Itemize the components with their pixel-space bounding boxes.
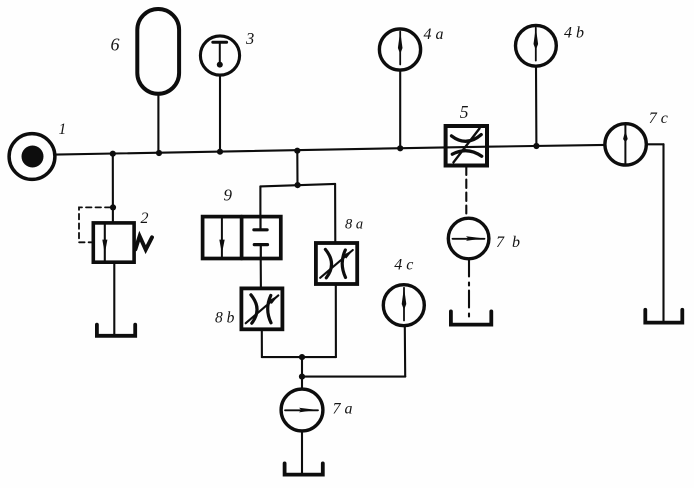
svg-text:7 a: 7 a [333, 400, 353, 417]
node junction bus-valve2 [110, 151, 116, 157]
thermometer 3 [200, 36, 239, 75]
wire dashed 5 to 7b [465, 167, 467, 214]
wire branch top horizontal [260, 184, 335, 187]
wire 7a to tank [301, 431, 303, 473]
svg-text:2: 2 [141, 210, 149, 227]
throttle valve 8b body [241, 288, 282, 329]
flow meter 7c [605, 124, 646, 165]
wire gauge 4a stem [399, 70, 401, 148]
pressure gauge 4c [383, 285, 424, 326]
node junction bus-branch [294, 148, 300, 154]
tank under valve 2 [97, 325, 135, 336]
wire rail to 7a junction [301, 357, 303, 377]
throttle valve 8b venturi arcs [251, 295, 271, 323]
wire pilot dashed of valve 2 [79, 207, 111, 242]
wire valve 2 to tank [113, 262, 115, 334]
valve 9 left cell flow arrow [219, 217, 224, 258]
relief valve 2 spring [135, 236, 152, 249]
throttle valve 8a adjust arrow [320, 249, 353, 277]
throttle valve 8a body [316, 243, 357, 284]
svg-text:3: 3 [245, 29, 254, 48]
node junction bus-4a [397, 145, 403, 151]
wire 8b to bottom rail [261, 329, 263, 357]
wire thermometer stem [219, 75, 221, 152]
svg-text:8 a: 8 a [345, 216, 363, 232]
valve 9 right cell closed ports [254, 217, 268, 258]
wire bottom rail [262, 356, 336, 358]
throttle valve 5 adjust diagonal [454, 129, 480, 163]
wire accumulator stem [157, 94, 159, 153]
svg-text:9: 9 [224, 186, 233, 205]
node junction bus-4b [533, 143, 539, 149]
node junction bus-accumulator [156, 150, 162, 156]
throttle valve 5 venturi arcs [452, 135, 482, 157]
accumulator 6 [137, 9, 179, 94]
pump U1 circle [9, 134, 55, 180]
svg-text:6: 6 [111, 35, 120, 55]
svg-text:8 b: 8 b [215, 309, 235, 326]
wire right drop to tank [662, 144, 664, 320]
pressure gauge 4a [379, 29, 420, 70]
pressure gauge 4b [516, 25, 557, 66]
wire left branch to valve 9 [259, 186, 261, 216]
wire valve 9 to throttle 8b [260, 259, 262, 289]
throttle valve 8a venturi arcs [325, 249, 345, 277]
node junction bus-thermometer [217, 149, 223, 155]
wire main pressure bus [56, 145, 605, 155]
directional valve 9 body [203, 217, 281, 259]
wire 8a to bottom rail [335, 284, 337, 357]
svg-text:4 b: 4 b [564, 24, 584, 41]
relief valve 2 flow arrow [102, 223, 107, 262]
wire 7c output right [646, 143, 663, 145]
svg-text:5: 5 [460, 102, 469, 122]
svg-text:7 c: 7 c [649, 110, 668, 127]
relief valve 2 body [93, 223, 134, 262]
wire right branch to throttle 8a [334, 184, 336, 243]
flow meter 7b [448, 218, 489, 259]
svg-text:4 a: 4 a [424, 26, 444, 43]
wire branch down from bus [296, 151, 298, 186]
node junction branch top [295, 182, 301, 188]
wire dash-dot 7b to tank [468, 260, 470, 322]
svg-text:1: 1 [59, 121, 67, 138]
wire pilot stem to valve 2 [112, 154, 114, 223]
svg-text:7 b: 7 b [496, 234, 520, 251]
flow meter 7a [281, 389, 323, 431]
throttle valve 5 body [446, 126, 487, 166]
throttle valve 8b adjust arrow [246, 295, 279, 323]
node junction bottom rail [299, 354, 305, 360]
wire gauge 4b stem [535, 66, 538, 146]
tank under 7a [285, 463, 323, 474]
svg-text:4 c: 4 c [394, 257, 413, 274]
wire junction to 7a [301, 377, 303, 389]
wire gauge 4c stem [404, 326, 407, 377]
wire horizontal to gauge 4c [302, 376, 405, 378]
node junction 7a-4c [299, 374, 305, 380]
tank under 7b [451, 311, 491, 324]
node pilot junction [110, 204, 116, 210]
tank right under 7c line [645, 310, 682, 323]
